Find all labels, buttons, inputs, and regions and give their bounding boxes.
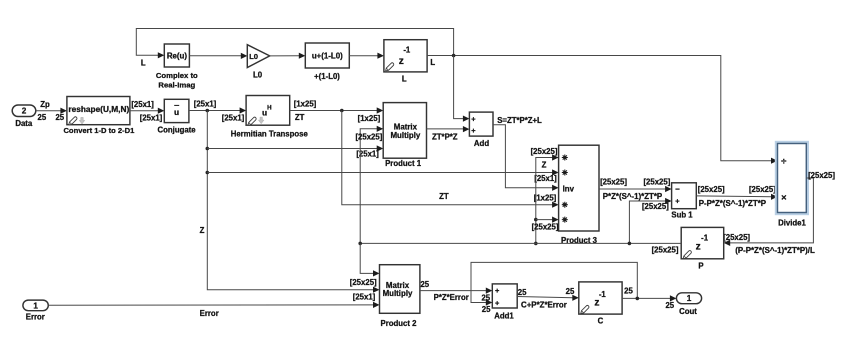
label 25 (Add1 in2) [482,305,491,314]
svg-text:P*Z*(S^-1)*ZT*P: P*Z*(S^-1)*ZT*P [603,192,662,201]
wire P branch down to Product 2 input 1 [360,243,379,276]
block Add (sum S) [469,112,493,136]
wire Product 3 out to Sub 1 minus input [599,186,672,192]
label [25x25] (before P) [723,233,750,242]
label L0 (gain name) [253,71,263,80]
block C (delay z^-1) [579,282,622,314]
svg-text:ZT: ZT [295,113,305,122]
wire C feedback to Add1 input 2 [471,262,637,305]
gain L0 (triangle) [247,45,269,68]
label Real-Imag (line 2) [158,80,195,89]
svg-text:2: 2 [22,107,27,116]
svg-text:-1: -1 [403,45,411,54]
svg-text:[1x25]: [1x25] [534,193,557,202]
svg-text:P*Z*Error: P*Z*Error [434,293,469,302]
label [25x1] (below, before Hermitian) [222,113,245,122]
label ZT (mid branch) [439,192,449,201]
label [25x1] (below, reshape out) [140,113,163,122]
label C (below delay) [598,316,604,325]
label Error (port name) [26,313,45,322]
label Divide1 [778,219,806,228]
block Sub 1 (subtract) [672,183,697,209]
svg-text:[25x25]: [25x25] [749,185,776,194]
svg-text:z: z [594,298,599,309]
label [25x25] (Product 1 in2) [355,132,382,141]
label 25 (C out) [624,287,633,296]
label Product 2 [381,319,418,328]
svg-text:(P-P*Z*(S^-1)*ZT*P)/L: (P-P*Z*(S^-1)*ZT*P)/L [735,246,815,255]
wire Product 1 out to Add input 2 [427,126,470,132]
svg-text:[25x1]: [25x1] [222,113,245,122]
label Product 3 [561,236,598,245]
svg-text:-1: -1 [701,233,709,242]
svg-text:Add: Add [474,139,489,148]
svg-text:+: + [495,286,500,295]
label 25 (before C) [566,287,575,296]
label ZT*P*Z [432,132,458,141]
label Error (signal name) [200,309,219,318]
label [1x25] (Product 1 in1) [358,114,381,123]
block Hermitian Transpose (u^H) [246,96,290,126]
svg-text:L: L [141,59,146,68]
svg-text:[25x25]: [25x25] [532,223,559,232]
block +(1-L0) (u+(1-L0)) [305,43,349,68]
label [25x25] (Product 3 in1) [531,147,558,156]
svg-text:25: 25 [665,301,674,310]
wire P branch up to Product 3 input 1 [534,154,559,245]
svg-text:Multiply: Multiply [390,131,420,140]
svg-text:25: 25 [624,287,633,296]
label Z (Product 3 in2) [542,160,547,169]
wire C out to Cout port [622,295,676,301]
wire Z branch to Product 1 input 3 [207,145,383,151]
label Hermitian Transpose [231,129,309,138]
label [25x25] (Product 2 in1) [350,278,377,287]
svg-text:[25x1]: [25x1] [353,292,376,301]
wire Z vertical trunk down to Product 2 input 2 [206,111,380,293]
label 25 (Add1 in1) [481,294,490,303]
wire P*Z*Error to Add1 input 1 [420,288,492,294]
label (P-P*Z*(S^-1)*ZT*P)/L [735,246,815,255]
wire Sub 1 out to Divide1 times input [696,194,777,200]
wire Error to Product 2 input 3 [48,302,379,308]
wire ZT branch down to Product 3 input 4 [342,111,559,208]
svg-text:+: + [675,196,680,205]
svg-text:[25x1]: [25x1] [131,100,154,109]
label L (below delay block) [402,74,407,83]
svg-text:Product 1: Product 1 [385,159,422,168]
svg-text:[25x25]: [25x25] [350,278,377,287]
svg-text:Error: Error [26,313,45,322]
wire Z branch to Product 3 input 2 [207,169,558,175]
svg-text:[25x25]: [25x25] [600,178,627,187]
label Convert 1-D to 2-D1 [63,126,135,135]
wire L0 to u+(1-L0) [270,53,306,59]
label Add [474,139,489,148]
svg-text:H: H [267,105,272,112]
svg-text:25: 25 [566,287,575,296]
label [25x1] (Product 3 in2) [534,174,557,183]
label Conjugate [158,125,197,134]
svg-text:Cout: Cout [679,307,697,316]
svg-text:L0: L0 [249,52,258,61]
label Add1 [494,312,514,321]
label 25 (Data width) [38,113,47,122]
svg-text:[1x25]: [1x25] [358,114,381,123]
label P-P*Z*(S^-1)*ZT*P [699,199,766,208]
svg-text:Divide1: Divide1 [778,219,806,228]
svg-text:Real-Imag: Real-Imag [158,80,195,89]
label [1x25] (above, after Hermitian) [294,99,317,108]
label P*Z*(S^-1)*ZT*P [603,192,662,201]
wire P output trunk (to Products and Sub) [358,242,681,246]
label P (below delay) [698,261,703,270]
svg-text:z: z [399,56,404,67]
svg-text:Inv: Inv [563,184,575,193]
wire Add1 out to C delay [517,295,579,301]
svg-text:P: P [698,261,703,270]
svg-text:u+(1-L0): u+(1-L0) [312,52,343,61]
wire Divide1 out to P delay input [724,178,814,246]
label Complex to (line 1) [156,71,198,80]
svg-text:Z: Z [542,160,547,169]
block Divide1 (selected, blue highlight) [776,142,808,214]
svg-text:Multiply: Multiply [383,289,413,298]
svg-text:L: L [402,74,407,83]
label [25x1] (Product 2 in2) [353,292,376,301]
label [25x25] (Divide1 out) [808,171,835,180]
svg-text:25: 25 [420,280,429,289]
block P (delay z^-1, mirrored) [681,227,724,258]
label [1x25] (Product 3 in4) [534,193,557,202]
svg-text:Add1: Add1 [494,312,514,321]
label L (feedback into Complex to Real-Imag) [141,59,146,68]
label [25x1] (above, reshape out) [131,100,154,109]
label C+P*Z*Error [521,301,567,310]
svg-text:-1: -1 [599,290,607,299]
label 25 (Product 2 out) [420,280,429,289]
label Sub 1 [671,210,693,219]
svg-text:Z: Z [200,226,205,235]
svg-text:25: 25 [518,288,527,297]
svg-text:[25x25]: [25x25] [698,185,725,194]
label Zp (signal name) [40,100,50,109]
svg-text:Sub 1: Sub 1 [671,210,693,219]
svg-text:Complex to: Complex to [156,71,198,80]
svg-text:[25x25]: [25x25] [643,178,670,187]
label 25 (before reshape) [55,113,64,122]
label Product 1 [385,159,422,168]
label [25x25] (after Product 3) [600,178,627,187]
svg-text:+(1-L0): +(1-L0) [314,72,340,81]
svg-text:reshape(U,M,N): reshape(U,M,N) [68,104,129,114]
svg-text:Error: Error [200,309,219,318]
block Conjugate (u bar) [164,99,189,122]
wire Data to reshape [36,108,67,114]
svg-text:C: C [598,316,604,325]
label [25x25] (after Sub 1) [698,185,725,194]
label ZT (signal name) [295,113,305,122]
label [25x1] (above, conjugate out) [194,99,217,108]
svg-text:ZT: ZT [439,192,449,201]
svg-text:[25x25]: [25x25] [723,233,750,242]
svg-text:ZT*P*Z: ZT*P*Z [432,132,458,141]
svg-text:S=ZT*P*Z+L: S=ZT*P*Z+L [497,116,542,125]
label L (delay output) [430,58,435,67]
svg-text:[25x25]: [25x25] [808,171,835,180]
svg-text:25: 25 [38,113,47,122]
block Complex to Real-Imag (Re(u)) [164,44,189,67]
svg-text:u: u [174,107,179,117]
inport 2 Data [12,105,36,117]
wire Re(u) to gain L0 [189,53,247,59]
svg-text:[25x25]: [25x25] [642,202,669,211]
block Add1 (sum C update) [492,284,517,308]
label [25x1] (Product 1 in3) [356,149,379,158]
svg-text:+: + [471,114,476,123]
block Product 2 (Matrix Multiply) [380,265,420,314]
svg-text:25: 25 [482,305,491,314]
block delay L (z^-1) [384,40,427,72]
svg-text:[25x25]: [25x25] [652,245,679,254]
svg-text:25: 25 [55,113,64,122]
label [25x25] (Sub 1 plus in) [642,202,669,211]
label 25 (before Cout) [665,301,674,310]
label Z (vertical trunk) [200,226,205,235]
wire Conjugate to Hermitian Transpose (Z net) [189,107,246,113]
label Data (port name) [15,119,33,128]
svg-text:[25x1]: [25x1] [194,99,217,108]
label +(1-L0) [314,72,340,81]
wire u+(1-L0) to delay L [349,53,384,59]
svg-text:C+P*Z*Error: C+P*Z*Error [521,301,567,310]
svg-text:Data: Data [15,119,33,128]
svg-text:×: × [781,192,787,203]
wire P branch up to Product 1 input 2 [360,126,383,244]
svg-text:Conjugate: Conjugate [158,125,197,134]
svg-text:P-P*Z*(S^-1)*ZT*P: P-P*Z*(S^-1)*ZT*P [699,199,766,208]
svg-text:Zp: Zp [40,100,50,109]
svg-text:Convert 1-D to 2-D1: Convert 1-D to 2-D1 [63,126,135,135]
svg-text:Product 2: Product 2 [381,319,418,328]
wire L output to Divide1 divider input [427,54,777,164]
svg-text:[1x25]: [1x25] [294,99,317,108]
svg-text:1: 1 [33,301,38,310]
wire P branch up to Sub 1 plus input [629,198,671,244]
block Product 3 (matrix multiply with Inv) [559,145,599,231]
block Product 1 (Matrix Multiply) [383,103,426,159]
svg-text:+: + [495,299,500,308]
wire S to Product 3 Inv input [493,125,559,191]
label P*Z*Error [434,293,469,302]
label [25x25] (before Sub 1) [643,178,670,187]
svg-text:+: + [471,126,476,135]
svg-text:Re(u): Re(u) [167,51,188,60]
label [25x25] (before Divide1) [749,185,776,194]
label [25x25] (P output) [652,245,679,254]
svg-text:÷: ÷ [781,156,787,167]
label Cout (port name) [679,307,697,316]
wire reshape to Conjugate [130,108,164,114]
svg-text:1: 1 [687,294,692,303]
label S=ZT*P*Z+L (Add output) [497,116,542,125]
svg-text:[25x25]: [25x25] [531,147,558,156]
wire L branch down to Add first input [454,56,470,122]
outport 1 Cout [676,293,701,304]
label 25 (after Add1) [518,288,527,297]
svg-text:L0: L0 [253,71,263,80]
wire ZT net to Product 1 input 1 [290,107,384,113]
svg-text:[25x1]: [25x1] [140,113,163,122]
svg-text:z: z [696,242,701,253]
svg-text:[25x1]: [25x1] [534,174,557,183]
inport 1 Error [23,300,48,311]
wire L feedback (top loop into Re(u)) [136,29,453,59]
svg-text:L: L [430,58,435,67]
svg-text:[25x25]: [25x25] [355,132,382,141]
wire P branch to Product 3 input 5 [536,217,559,223]
svg-text:Hermitian Transpose: Hermitian Transpose [231,129,309,138]
label [25x25] (Product 3 in5) [532,223,559,232]
block Convert 1-D to 2-D1 (reshape(U,M,N)) [67,97,130,125]
